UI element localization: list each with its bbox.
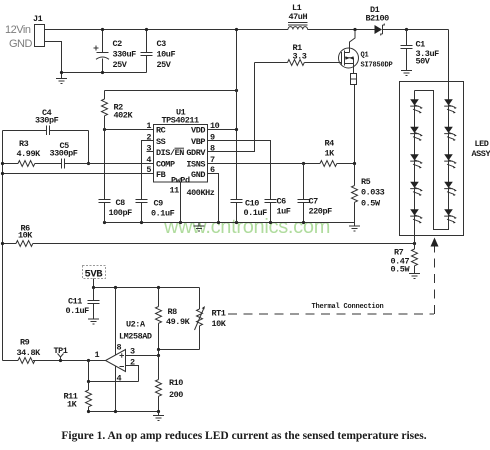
- wire pin1 RC: [105, 129, 154, 131]
- node C2 top: [101, 28, 104, 31]
- wire RT1 bottom to R8: [159, 349, 200, 351]
- transistor Q1: [339, 48, 359, 68]
- op-amp U2:A: [106, 350, 126, 372]
- resistor R10: [156, 356, 162, 412]
- U2 minus input mark: [120, 366, 125, 368]
- node VDD feed junction: [235, 89, 238, 92]
- svg-text:0.5W: 0.5W: [391, 265, 411, 275]
- svg-text:Figure 1. An op amp reduces LE: Figure 1. An op amp reduces LED current …: [61, 430, 426, 442]
- svg-text:0.033: 0.033: [361, 188, 385, 198]
- node C2 bottom: [101, 71, 104, 74]
- node R6 left junction: [1, 242, 4, 245]
- svg-text:25V: 25V: [157, 60, 172, 70]
- svg-text:C2: C2: [113, 39, 123, 49]
- svg-text:R3: R3: [19, 139, 29, 149]
- node feedback junction: [87, 380, 90, 383]
- wire pin11 PwPd: [180, 182, 182, 223]
- wire left vertical FB net: [2, 131, 4, 361]
- LED Dleft1: [410, 99, 419, 105]
- node output junction: [87, 359, 90, 362]
- U1 EN overline: [175, 147, 185, 149]
- svg-text:ISNS: ISNS: [186, 160, 205, 170]
- svg-text:47uH: 47uH: [289, 12, 308, 22]
- thermal connection dashed line: [228, 313, 434, 315]
- node opamp ground junctions: [114, 410, 117, 413]
- capacitor C11: [88, 288, 100, 320]
- svg-text:220pF: 220pF: [309, 207, 333, 217]
- svg-text:J1: J1: [33, 14, 43, 24]
- svg-text:C8: C8: [116, 198, 126, 208]
- svg-text:34.8K: 34.8K: [17, 348, 42, 358]
- wire Q1 source to ISNS node: [354, 85, 356, 164]
- LED Dright5: [444, 209, 453, 215]
- svg-text:C10: C10: [245, 199, 259, 209]
- node C1 junction: [405, 28, 408, 31]
- svg-text:50V: 50V: [416, 57, 431, 67]
- Q1 channel arrows: [346, 56, 350, 59]
- svg-text:400KHz: 400KHz: [187, 188, 215, 198]
- capacitor C2: [96, 30, 109, 73]
- svg-text:1uF: 1uF: [277, 207, 291, 217]
- node 5VB junctions: [92, 286, 95, 289]
- node C7 junction: [302, 162, 305, 165]
- node COMP network junction: [87, 162, 90, 165]
- wire LED right column: [415, 30, 449, 230]
- node R3 left junction: [1, 162, 4, 165]
- svg-text:RT1: RT1: [212, 309, 226, 319]
- wire VDD vertical: [236, 30, 238, 200]
- capacitor C5: [62, 159, 154, 169]
- LED Dleft3: [410, 154, 419, 160]
- node Q1 drain junction: [353, 28, 356, 31]
- wire pin7 ISNS: [208, 163, 304, 165]
- svg-text:1K: 1K: [325, 149, 336, 159]
- wire 5VB rail: [94, 287, 200, 289]
- LED Dleft2: [410, 127, 419, 133]
- capacitor C3: [141, 30, 153, 73]
- wire LED left column: [414, 91, 416, 244]
- node C3 top: [145, 28, 148, 31]
- test point TP1: [59, 359, 62, 362]
- svg-text:R10: R10: [169, 378, 183, 388]
- svg-text:SS: SS: [156, 137, 166, 147]
- capacitor C7: [298, 164, 310, 223]
- ground (input): [56, 73, 67, 84]
- svg-text:R8: R8: [168, 307, 178, 317]
- ground (op-amp): [153, 412, 164, 421]
- svg-text:B2100: B2100: [366, 14, 390, 24]
- svg-text:0.1uF: 0.1uF: [66, 306, 90, 316]
- svg-text:COMP: COMP: [156, 160, 175, 170]
- svg-text:GDRV: GDRV: [186, 148, 206, 158]
- resistor R7: [412, 244, 418, 274]
- svg-text:C3: C3: [157, 39, 167, 49]
- svg-text:11: 11: [170, 186, 180, 196]
- svg-text:330pF: 330pF: [35, 116, 59, 126]
- svg-text:8: 8: [117, 343, 122, 353]
- svg-text:LED: LED: [475, 139, 489, 149]
- resistor R4: [304, 161, 355, 167]
- wire pin10 VDD: [208, 129, 237, 131]
- svg-text:49.9K: 49.9K: [166, 317, 191, 327]
- resistor R9: [3, 358, 35, 364]
- wire J1 to input rail: [44, 29, 288, 31]
- wire feedback row: [89, 381, 139, 383]
- svg-text:R9: R9: [20, 338, 30, 348]
- svg-text:TP1: TP1: [54, 346, 68, 356]
- svg-text:402K: 402K: [114, 111, 134, 121]
- svg-text:C9: C9: [154, 199, 164, 209]
- thermistor RT1: [197, 288, 203, 350]
- LED Dright1: [444, 99, 453, 105]
- svg-text:4.99K: 4.99K: [17, 149, 42, 159]
- node pin3 junction: [157, 354, 160, 357]
- wire C4 right vertical: [88, 131, 90, 164]
- C2 polarity plus: [94, 46, 99, 51]
- svg-text:C11: C11: [68, 297, 82, 307]
- svg-text:R5: R5: [361, 177, 371, 187]
- node RC junction: [103, 128, 106, 131]
- capacitor C9: [136, 200, 148, 223]
- LED Dright4: [444, 182, 453, 188]
- svg-text:RC: RC: [156, 126, 166, 136]
- node pin10 junction: [235, 128, 238, 131]
- wire pin8 GDRV to gate: [208, 63, 255, 152]
- node VDD rail junction: [235, 28, 238, 31]
- diode D1 schottky: [375, 25, 383, 34]
- svg-text:SI7850DP: SI7850DP: [361, 62, 393, 70]
- resistor R3: [3, 161, 62, 167]
- resistor R1: [255, 60, 342, 66]
- svg-text:1K: 1K: [67, 400, 78, 410]
- resistor R6: [3, 241, 415, 247]
- svg-text:10K: 10K: [212, 319, 227, 329]
- node FB left junction: [1, 172, 4, 175]
- node R7 top junction: [413, 242, 416, 245]
- ground (C11): [88, 319, 99, 324]
- svg-text:1: 1: [95, 350, 100, 360]
- node R8 RT1 junction: [157, 348, 160, 351]
- LED Dleft4: [410, 182, 419, 188]
- LED assembly box: [400, 82, 464, 236]
- 5VB supply box: [83, 266, 106, 279]
- svg-text:10K: 10K: [18, 231, 33, 241]
- wire pin5 FB row: [3, 173, 154, 175]
- svg-text:330uF: 330uF: [113, 50, 137, 60]
- wire opamp ground rail: [89, 411, 159, 413]
- svg-text:GND: GND: [9, 38, 33, 50]
- svg-text:200: 200: [169, 390, 183, 400]
- wire mid ground rail: [105, 222, 355, 224]
- U2 plus input mark: [120, 353, 125, 357]
- resistor R5: [352, 164, 358, 223]
- resistor R11: [86, 382, 92, 412]
- svg-text:Q1: Q1: [361, 52, 369, 60]
- svg-text:100pF: 100pF: [109, 208, 133, 218]
- inductor L1: [288, 23, 308, 30]
- wire 5VB stub: [93, 279, 95, 288]
- capacitor C6: [265, 200, 277, 223]
- svg-text:0.1uF: 0.1uF: [244, 208, 268, 218]
- U2 pin 3 wire: [126, 355, 159, 357]
- svg-text:C1: C1: [416, 40, 426, 50]
- wire pin9 VBP: [208, 141, 271, 200]
- ground (R5): [349, 223, 360, 232]
- svg-text:Thermal Connection: Thermal Connection: [312, 303, 384, 311]
- U2 pin 8 wire: [115, 288, 117, 356]
- U2 output wire: [33, 360, 106, 362]
- ground (C1): [401, 71, 412, 76]
- wire input ground rail: [62, 72, 147, 74]
- svg-text:VBP: VBP: [191, 137, 205, 147]
- svg-text:ASSY: ASSY: [472, 149, 490, 159]
- wire D1 to LED assy: [383, 29, 449, 31]
- capacitor C1: [401, 30, 413, 71]
- Q1 package pads: [351, 74, 357, 80]
- wire pin3 DIS stub: [147, 151, 154, 153]
- wire pin2 SS: [142, 141, 154, 200]
- svg-text:2: 2: [130, 358, 135, 368]
- capacitor C10: [231, 200, 243, 223]
- svg-text:25V: 25V: [113, 60, 128, 70]
- wire L1 to D1: [308, 29, 375, 31]
- U2 pin 2 wire: [126, 366, 139, 382]
- resistor R2: [102, 91, 108, 130]
- LED Dright2: [444, 127, 453, 133]
- ground (mid rail): [194, 223, 205, 232]
- svg-text:10uF: 10uF: [157, 50, 176, 60]
- op-amp/IC U1 TPS40211: [154, 125, 208, 183]
- LED Dright3: [444, 154, 453, 160]
- U2 pin 4 wire: [115, 366, 117, 412]
- svg-text:www.cntronics.com: www.cntronics.com: [163, 216, 330, 238]
- capacitor C8: [99, 130, 111, 223]
- svg-text:0.5W: 0.5W: [361, 199, 381, 209]
- svg-text:VDD: VDD: [191, 126, 205, 136]
- svg-text:DIS/EN: DIS/EN: [156, 148, 184, 158]
- node J1 ground junction: [60, 71, 63, 74]
- LED Dleft5: [410, 209, 419, 215]
- connector J1: [35, 25, 45, 47]
- ground (R7): [409, 274, 420, 279]
- resistor R8: [156, 288, 162, 350]
- svg-text:0.1uF: 0.1uF: [151, 209, 175, 219]
- svg-text:C7: C7: [309, 197, 319, 207]
- svg-text:C6: C6: [277, 197, 287, 207]
- svg-text:3.3: 3.3: [293, 52, 307, 62]
- wire VDD feed: [105, 90, 237, 92]
- svg-text:12Vin: 12Vin: [5, 24, 31, 36]
- wire divider to pin3: [158, 350, 160, 356]
- svg-text:U2:A: U2:A: [126, 320, 146, 330]
- svg-text:FB: FB: [156, 170, 166, 180]
- svg-text:3: 3: [130, 347, 135, 357]
- wire output to feedback row: [88, 361, 90, 382]
- wire pin6 GND: [208, 174, 219, 223]
- thermal arrowhead: [431, 238, 439, 247]
- svg-text:TPS40211: TPS40211: [162, 116, 200, 126]
- wire J1 GND to ground: [44, 42, 62, 73]
- capacitor C4: [3, 126, 89, 136]
- svg-text:LM258AD: LM258AD: [119, 332, 152, 342]
- svg-text:GND: GND: [191, 170, 205, 180]
- node R4 right junction: [353, 162, 356, 165]
- node rail junctions: [140, 221, 143, 224]
- svg-text:3300pF: 3300pF: [50, 149, 78, 159]
- svg-text:R4: R4: [325, 139, 335, 149]
- RT1 arrow: [195, 309, 204, 330]
